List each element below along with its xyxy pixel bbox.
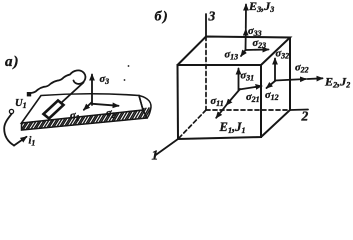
svg-text:σ1: σ1 <box>70 111 80 123</box>
axis 2 <box>290 109 308 112</box>
sigma3 arrow (up) on plate <box>91 75 93 106</box>
svg-text:σ21: σ21 <box>246 92 260 104</box>
svg-text:E1,J1: E1,J1 <box>219 120 246 135</box>
hidden back-bottom edge (dashed, axis 2 inside) <box>206 109 290 111</box>
svg-text:σ11: σ11 <box>211 96 224 108</box>
wire lead to electrode <box>61 83 84 104</box>
svg-text:i1: i1 <box>29 136 36 148</box>
sigma31 arrow (up, on front face) <box>238 69 240 91</box>
sigma22 arrow (right, on right face) <box>275 79 306 81</box>
sigma2 arrow (right) on plate <box>93 104 119 106</box>
E3,J3 arrow (up, continuation) <box>245 5 247 29</box>
sigma12 arrow (down-left, on right face) <box>267 81 276 88</box>
svg-text:σ33: σ33 <box>248 26 262 38</box>
sigma13 arrow (down-left, on top face) <box>241 50 246 56</box>
svg-text:U1: U1 <box>15 98 27 110</box>
hidden bottom-left edge (dashed, axis 1 inside) <box>178 110 206 139</box>
sigma11 arrow (down-left, on front face) <box>226 89 240 105</box>
terminal square (top lead of U1) <box>27 92 31 96</box>
svg-text:σ13: σ13 <box>225 50 239 62</box>
sigma1 arrow (down-left) on plate <box>84 103 92 110</box>
E1,J1 arrow (down-left, continuation) <box>216 106 226 118</box>
hatching <box>17 107 159 132</box>
axis 1 <box>155 139 178 156</box>
svg-text:1: 1 <box>152 148 159 161</box>
E2,J2 arrow (right, continuation) <box>308 77 323 80</box>
hidden back-left vertical edge (dashed, axis 3 inside) <box>205 37 207 111</box>
wavy wire from U1 to electrode <box>31 70 85 93</box>
sigma21 arrow (right, on front face) <box>239 86 262 90</box>
svg-text:σ2: σ2 <box>106 108 116 120</box>
svg-text:σ12: σ12 <box>265 90 279 102</box>
svg-text:E3,J3: E3,J3 <box>248 0 274 14</box>
plate top face <box>22 94 144 123</box>
axis 3 <box>205 14 207 37</box>
electrode rod on plate <box>44 101 64 119</box>
svg-text:2: 2 <box>301 109 309 124</box>
svg-text:а): а) <box>5 54 20 70</box>
i1 current arrow <box>14 137 27 146</box>
svg-text:σ31: σ31 <box>241 71 255 83</box>
plate front band (hatched thickness) <box>22 110 148 130</box>
speck dots <box>124 79 126 81</box>
cube top face edges <box>178 37 291 66</box>
svg-text:3: 3 <box>208 9 216 24</box>
svg-text:б): б) <box>155 10 170 25</box>
sigma33 arrow (up, on top face) <box>245 30 247 51</box>
plate right end wedge <box>139 96 151 119</box>
cube front face <box>178 65 262 139</box>
svg-text:σ23: σ23 <box>253 38 267 50</box>
sigma23 arrow (right, on top face) <box>246 49 269 52</box>
svg-text:E2,J2: E2,J2 <box>324 75 350 90</box>
terminal circle (bottom lead of U1) <box>9 109 13 113</box>
wire loop to i1 <box>4 114 14 146</box>
svg-text:σ3: σ3 <box>100 74 110 86</box>
cube right face edges <box>261 38 290 138</box>
sigma32 arrow (up, on right face) <box>274 59 276 82</box>
svg-text:σ32: σ32 <box>276 49 290 61</box>
svg-text:σ22: σ22 <box>295 63 309 75</box>
plate top-face right edge <box>139 96 143 111</box>
